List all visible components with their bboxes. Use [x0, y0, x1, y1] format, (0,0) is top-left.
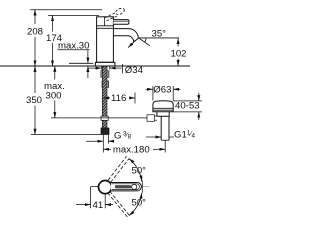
svg-text:G3⁄8: G3⁄8	[114, 131, 132, 142]
svg-text:350: 350	[26, 95, 42, 106]
svg-text:300: 300	[46, 90, 62, 101]
svg-text:116: 116	[111, 93, 126, 104]
svg-text:Ø34: Ø34	[125, 65, 144, 76]
svg-text:41: 41	[93, 200, 104, 211]
svg-text:50°: 50°	[132, 197, 147, 208]
svg-text:35°: 35°	[152, 29, 167, 40]
svg-text:40-53: 40-53	[175, 100, 200, 111]
svg-text:Ø63: Ø63	[153, 85, 171, 96]
svg-text:max.30: max.30	[58, 41, 89, 52]
svg-text:G11⁄4: G11⁄4	[174, 130, 196, 141]
svg-text:50°: 50°	[132, 166, 147, 177]
svg-text:208: 208	[27, 27, 43, 38]
svg-text:max.180: max.180	[113, 144, 150, 155]
svg-text:102: 102	[171, 49, 187, 60]
